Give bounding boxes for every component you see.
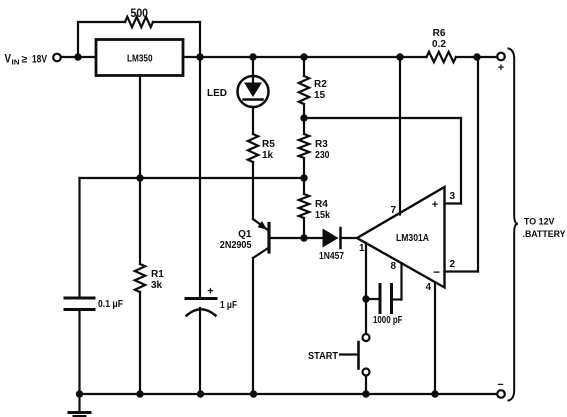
resistor 500 (125, 17, 153, 27)
capacitor C2 1uF polarized (186, 297, 216, 300)
regulator U2 LM350 box (96, 40, 183, 76)
wire pin8 to cap (393, 298, 402, 300)
svg-text:3: 3 (450, 191, 456, 202)
pin 2 stub (445, 270, 479, 272)
svg-text:1 μF: 1 μF (220, 300, 237, 311)
wire top rail LM350 output (183, 56, 427, 58)
wire R2 to R3 (303, 104, 305, 134)
wire feedback top right (153, 21, 200, 23)
label Q1 2N2905 (220, 229, 252, 251)
svg-text:R2: R2 (314, 79, 327, 90)
wire collector to ground rail (252, 258, 254, 394)
svg-text:4: 4 (425, 282, 431, 293)
svg-text:+: + (207, 286, 213, 298)
resistor R4 (299, 194, 309, 218)
wire to 1000pF left plate (366, 298, 379, 300)
svg-text:18V: 18V (32, 54, 48, 66)
wire pin3 column (460, 118, 462, 204)
label plus input (432, 199, 438, 211)
brace to battery (509, 49, 519, 401)
label START (308, 351, 338, 362)
node VIN input label (5, 54, 48, 67)
wire diode to op-amp (341, 237, 358, 239)
wire feedback top left (78, 21, 125, 23)
switch S1 lower contact (363, 369, 370, 376)
label LED (207, 88, 227, 99)
svg-text:1N457: 1N457 (319, 251, 344, 262)
pin 7 label (390, 205, 396, 216)
label LM350 (127, 53, 153, 65)
label plus C2 (207, 286, 213, 298)
node pin2 column dot (473, 53, 480, 60)
label plus (498, 62, 504, 74)
resistor R2 (299, 76, 309, 104)
svg-text:START: START (308, 351, 338, 362)
op-amp U1 LM301A triangle (357, 187, 445, 288)
wire LED top lead (252, 57, 254, 76)
svg-text:Q1: Q1 (238, 229, 252, 240)
label 0.1uF (98, 299, 123, 310)
wire ADJ row (80, 177, 305, 179)
wire 0.1uF bottom lead (78, 311, 80, 394)
svg-text:1000 pF: 1000 pF (373, 315, 403, 326)
svg-text:2N2905: 2N2905 (220, 240, 252, 251)
pin 3 label (450, 191, 456, 202)
svg-text:−: − (433, 265, 440, 279)
wire feedback left vertical (77, 22, 79, 57)
switch S1 lever bar (357, 342, 360, 369)
svg-text:7: 7 (390, 205, 396, 216)
label R4 15k (315, 199, 330, 221)
wire R1 to ground rail (139, 292, 141, 394)
label R5 1k (262, 139, 275, 161)
label 500 (131, 8, 149, 20)
node base R4 junction dot (300, 234, 307, 241)
svg-text:R1: R1 (151, 269, 164, 280)
wire LED to R5 (252, 107, 254, 134)
wire R6 to output (456, 56, 497, 58)
svg-text:LED: LED (207, 88, 227, 99)
svg-text:V: V (5, 54, 12, 66)
label minus input (433, 265, 440, 279)
label LM301A (396, 233, 429, 244)
label R1 3k (151, 269, 164, 291)
node pin7 branch dot (396, 53, 403, 60)
svg-text:500: 500 (131, 8, 149, 20)
input terminal circle (53, 54, 61, 62)
svg-text:15k: 15k (315, 210, 330, 221)
switch S1 START upper contact (363, 334, 370, 341)
node ground left dot (76, 390, 83, 397)
wire pin3 to R2R3 junction (304, 117, 461, 119)
label TO 12V BATTERY (523, 217, 567, 241)
LED D1 (238, 76, 269, 107)
diode D2 1N457 (323, 229, 339, 248)
svg-text:15: 15 (314, 90, 326, 101)
ground symbol (78, 394, 80, 412)
node ADJ junction dot (300, 174, 307, 181)
node input junction dot (74, 53, 81, 60)
svg-text:−: − (497, 379, 503, 391)
switch S1 actuator line (340, 353, 357, 355)
svg-text:3k: 3k (151, 280, 163, 291)
label R6 0.2 (432, 28, 446, 50)
svg-text:0.1 μF: 0.1 μF (98, 299, 123, 310)
resistor R5 (248, 134, 258, 162)
resistor R2 top lead (303, 57, 305, 76)
wire 0.1uF top lead (78, 178, 80, 297)
wire 1uF top lead (199, 57, 201, 297)
wire input to LM350 (61, 56, 96, 58)
capacitor C3 1000pF (379, 285, 382, 313)
wire R5 to emitter (252, 162, 254, 219)
pin 1 label (359, 243, 365, 254)
wire 1uF bottom lead (199, 308, 201, 394)
svg-text:LM350: LM350 (127, 53, 153, 65)
resistor R6 (427, 52, 457, 62)
svg-text:2: 2 (450, 259, 456, 270)
node LED branch dot (249, 53, 256, 60)
svg-text:+: + (498, 62, 504, 74)
label 1000pF (373, 315, 403, 326)
pin 4 label (425, 282, 431, 293)
pin 2 label (450, 259, 456, 270)
wire R3 to R4 (303, 158, 305, 194)
pin 4 wire (434, 283, 436, 395)
label minus terminal (497, 379, 503, 391)
node R1 rail dot (136, 390, 143, 397)
wire ADJ pin from LM350 (139, 76, 141, 265)
wire switch to ground rail (365, 376, 367, 395)
wire bottom rail (80, 393, 498, 395)
node R2 R3 pin3 junction dot (300, 114, 307, 121)
node pin4 rail dot (431, 390, 438, 397)
node 1uF rail dot (197, 390, 204, 397)
svg-text:R3: R3 (315, 139, 328, 150)
svg-text:.BATTERY: .BATTERY (523, 229, 567, 240)
wire op-amp input column (365, 243, 367, 334)
output terminal plus circle (497, 53, 505, 61)
label R2 15 (314, 79, 327, 101)
svg-text:≥: ≥ (22, 54, 28, 66)
transistor Q1 2N2905 (267, 224, 270, 253)
node LM350 output dot (196, 53, 203, 60)
node collector rail dot (250, 390, 257, 397)
node 1000pF junction dot (362, 295, 369, 302)
label 1N457 (319, 251, 344, 262)
resistor R3 (299, 134, 309, 158)
pin 7 wire (399, 57, 401, 215)
svg-text:230: 230 (315, 150, 330, 161)
pin 8 label (390, 261, 396, 272)
pin 8 wire (400, 263, 402, 300)
label 1uF (220, 300, 237, 311)
capacitor C1 0.1uF (65, 297, 94, 300)
node ADJ R1 dot (136, 174, 143, 181)
svg-text:0.2: 0.2 (432, 39, 446, 50)
svg-text:R5: R5 (262, 139, 275, 150)
svg-text:TO 12V: TO 12V (524, 217, 555, 228)
resistor R1 (135, 264, 145, 292)
pin 3 stub (445, 202, 462, 204)
svg-text:1: 1 (359, 243, 365, 254)
svg-text:8: 8 (390, 261, 396, 272)
wire base to diode (271, 237, 323, 239)
wire feedback right vertical (199, 22, 201, 57)
node switch rail dot (362, 390, 369, 397)
svg-text:IN: IN (12, 58, 20, 67)
node R2 branch dot (300, 53, 307, 60)
output terminal minus circle (497, 390, 505, 398)
wire R4 to base node (303, 218, 305, 238)
svg-text:R6: R6 (433, 28, 446, 39)
svg-text:LM301A: LM301A (396, 233, 429, 244)
label R3 230 (315, 139, 330, 161)
svg-text:R4: R4 (315, 199, 328, 210)
svg-text:+: + (432, 199, 438, 211)
wire pin2 column (477, 57, 479, 272)
svg-text:1k: 1k (262, 150, 274, 161)
